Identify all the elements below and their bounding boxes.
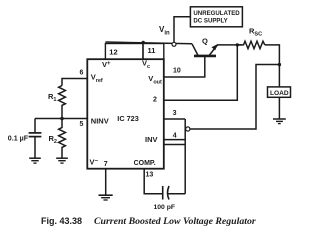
LOAD box	[268, 87, 291, 97]
wire pin 7 to ground	[105, 169, 107, 195]
svg-text:7: 7	[104, 161, 108, 168]
ground under R2	[56, 158, 68, 163]
pin 11 box	[143, 44, 164, 60]
wire pin 13 COMP to capacitor	[144, 169, 162, 194]
junction divider node	[60, 117, 64, 121]
transistor Q1 base bar	[194, 55, 216, 58]
wire RSC to load	[265, 45, 280, 87]
svg-text:Vout: Vout	[148, 74, 162, 86]
capacitor C1 0.1uF	[29, 119, 42, 158]
svg-text:Vc: Vc	[142, 59, 150, 71]
svg-text:3: 3	[173, 110, 177, 117]
ground under pin 7	[99, 195, 113, 200]
svg-text:12: 12	[109, 47, 117, 56]
svg-text:RSC: RSC	[249, 27, 262, 38]
wire pin 6 Vref	[62, 79, 88, 86]
junction top rail	[142, 41, 145, 44]
wire Vin to DC supply	[174, 17, 190, 43]
wire pin 3	[164, 118, 185, 120]
svg-text:13: 13	[146, 172, 154, 179]
svg-text:NINV: NINV	[91, 117, 109, 126]
wire pin 10 to base	[164, 56, 205, 77]
capacitor C2 100pF	[163, 186, 186, 200]
svg-text:V−: V−	[90, 157, 99, 166]
svg-text:2: 2	[153, 97, 157, 104]
wire pins 3-4 tie vertical	[184, 119, 186, 194]
svg-text:R1: R1	[48, 92, 56, 103]
resistor R1 zigzag	[59, 86, 66, 119]
node INV terminal circle	[186, 127, 190, 131]
ground under LOAD	[273, 119, 286, 124]
wire pin 4	[164, 140, 185, 145]
resistor R2 zigzag	[59, 119, 66, 158]
op-amp regulator IC U1 (IC 723) body	[87, 59, 164, 169]
wire pin 5 node rail	[35, 118, 88, 120]
svg-text:0.1 µF: 0.1 µF	[8, 134, 29, 142]
svg-text:LOAD: LOAD	[270, 90, 289, 97]
resistor RSC zigzag	[237, 41, 264, 48]
svg-text:Fig. 43.38: Fig. 43.38	[41, 216, 82, 226]
pin 12 box	[105, 44, 143, 60]
wire top rail	[105, 42, 192, 44]
transistor Q1 emitter diagonal with arrow	[210, 44, 218, 55]
svg-text:DC SUPPLY: DC SUPPLY	[193, 18, 227, 25]
transistor Q1 collector diagonal	[192, 44, 198, 55]
svg-text:10: 10	[173, 68, 181, 75]
node Vin terminal circle	[172, 42, 176, 46]
svg-text:Vref: Vref	[91, 73, 103, 85]
svg-text:INV: INV	[145, 135, 158, 144]
wire INV sense to output node	[190, 65, 280, 130]
svg-text:Current Boosted Low Voltage Re: Current Boosted Low Voltage Regulator	[94, 216, 256, 227]
svg-text:6: 6	[80, 70, 84, 77]
svg-text:UNREGULATED: UNREGULATED	[193, 10, 240, 17]
svg-text:R2: R2	[49, 134, 57, 145]
svg-text:COMP.: COMP.	[134, 160, 156, 167]
svg-text:11: 11	[148, 46, 156, 55]
wire pin 2 to emitter node	[164, 45, 238, 100]
svg-text:V+: V+	[102, 60, 111, 69]
ground under C1	[29, 158, 41, 163]
wire LOAD to ground	[278, 97, 280, 119]
svg-text:Vin: Vin	[159, 25, 170, 37]
junction output sense node	[278, 63, 281, 66]
svg-text:100 pF: 100 pF	[154, 204, 176, 211]
svg-text:4: 4	[173, 133, 177, 140]
wire emitter to RSC	[218, 44, 242, 46]
svg-text:Q: Q	[202, 37, 208, 46]
junction emitter node	[236, 43, 239, 46]
UNREGULATED DC SUPPLY box	[190, 7, 242, 27]
svg-text:IC 723: IC 723	[117, 114, 139, 123]
svg-text:5: 5	[80, 121, 84, 128]
